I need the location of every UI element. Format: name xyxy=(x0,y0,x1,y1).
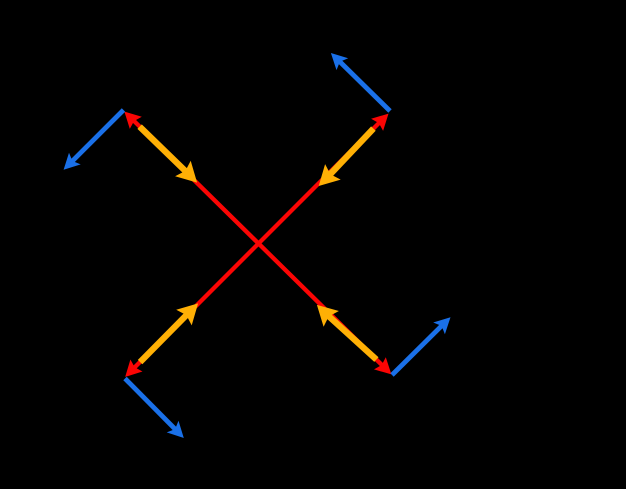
orange arrow TR shaft xyxy=(327,129,373,178)
blue arrow BR head xyxy=(433,317,450,334)
orange arrow BL head xyxy=(176,303,198,325)
red head TR head xyxy=(371,114,388,131)
red diagonal TR-BL shaft xyxy=(132,120,383,371)
blue arrow BR shaft xyxy=(392,324,443,375)
blue arrow TL shaft xyxy=(71,110,124,163)
blue arrow TR head xyxy=(331,53,348,70)
blue arrow TR shaft xyxy=(338,60,390,111)
orange arrow BR shaft xyxy=(325,313,376,359)
red diagonal TL-BR shaft xyxy=(131,118,385,368)
orange arrow BL shaft xyxy=(140,312,190,362)
red head BR head xyxy=(374,357,391,374)
red head BL head xyxy=(125,360,142,377)
blue arrow BL head xyxy=(167,421,184,438)
red head TL head xyxy=(124,112,141,129)
blue arrow TL head xyxy=(64,153,81,170)
orange arrow TR head xyxy=(319,164,341,186)
orange arrow TL shaft xyxy=(140,127,189,175)
orange arrow TL head xyxy=(175,161,197,183)
blue arrow BL shaft xyxy=(125,379,177,431)
orange arrow BR head xyxy=(317,305,339,327)
